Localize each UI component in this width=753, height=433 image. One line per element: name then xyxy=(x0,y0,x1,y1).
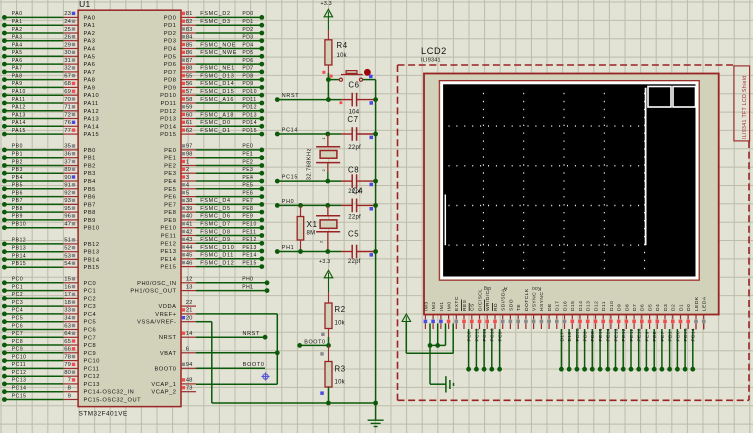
svg-text:PB0: PB0 xyxy=(84,148,96,154)
svg-text:PD7: PD7 xyxy=(164,70,177,76)
svg-text:PE14: PE14 xyxy=(160,257,176,263)
svg-text:PA12: PA12 xyxy=(12,105,26,111)
svg-text:PD13: PD13 xyxy=(160,117,176,123)
svg-text:Koo: Koo xyxy=(532,285,542,291)
svg-text:PB3: PB3 xyxy=(12,167,23,173)
svg-text:PC8: PC8 xyxy=(84,343,97,349)
svg-text:D8: D8 xyxy=(624,304,630,311)
svg-text:PD14: PD14 xyxy=(160,124,176,130)
svg-text:LEDK: LEDK xyxy=(694,296,700,311)
svg-text:PE12: PE12 xyxy=(160,241,176,247)
svg-text:32: 32 xyxy=(64,66,71,72)
svg-text:VREF+: VREF+ xyxy=(155,312,176,318)
svg-text:PD10: PD10 xyxy=(160,93,176,99)
svg-text:72: 72 xyxy=(64,112,71,118)
svg-text:DE: DE xyxy=(547,303,553,311)
svg-text:78: 78 xyxy=(64,354,71,360)
svg-text:PE11: PE11 xyxy=(629,329,635,342)
svg-text:PA12: PA12 xyxy=(84,109,100,115)
svg-text:1: 1 xyxy=(186,159,189,165)
svg-text:24: 24 xyxy=(64,19,71,25)
svg-text:10k: 10k xyxy=(335,379,346,385)
svg-text:FSMC_D11: FSMC_D11 xyxy=(200,253,234,259)
svg-text:PD15: PD15 xyxy=(683,328,689,342)
svg-text:PC0: PC0 xyxy=(12,277,23,283)
svg-text:54: 54 xyxy=(64,261,71,267)
svg-text:PD4: PD4 xyxy=(164,47,177,53)
svg-text:PE2: PE2 xyxy=(164,164,176,170)
svg-text:X1: X1 xyxy=(307,220,318,229)
svg-text:FSMC_D9: FSMC_D9 xyxy=(200,237,230,243)
svg-text:FSMC_D1: FSMC_D1 xyxy=(200,128,230,134)
svg-text:PB15: PB15 xyxy=(84,265,100,271)
svg-text:PA11: PA11 xyxy=(84,101,99,107)
svg-text:+3.3: +3.3 xyxy=(319,259,330,265)
svg-text:FSMC_NOE: FSMC_NOE xyxy=(200,42,236,48)
svg-text:PA15: PA15 xyxy=(84,132,100,138)
svg-text:35: 35 xyxy=(64,144,71,150)
svg-text:PD2: PD2 xyxy=(164,31,177,37)
svg-text:C4: C4 xyxy=(352,187,363,196)
svg-text:D2: D2 xyxy=(671,304,677,311)
svg-text:PB3: PB3 xyxy=(84,171,96,177)
svg-text:PA3: PA3 xyxy=(84,39,96,45)
svg-text:PD9: PD9 xyxy=(164,85,177,91)
svg-text:PB2: PB2 xyxy=(84,164,96,170)
svg-text:96: 96 xyxy=(64,214,71,220)
svg-text:PB14: PB14 xyxy=(12,253,26,259)
svg-text:PD13: PD13 xyxy=(242,112,257,118)
svg-text:PE13: PE13 xyxy=(242,245,256,251)
svg-text:PC14: PC14 xyxy=(12,386,27,392)
svg-text:IM0: IM0 xyxy=(447,301,453,311)
svg-text:70: 70 xyxy=(64,97,71,103)
svg-text:40: 40 xyxy=(186,214,193,220)
svg-text:PC7: PC7 xyxy=(12,331,23,337)
svg-text:77: 77 xyxy=(64,128,71,134)
svg-text:PC13: PC13 xyxy=(84,382,100,388)
svg-text:69: 69 xyxy=(64,89,71,95)
svg-text:FSMC_D3: FSMC_D3 xyxy=(200,19,230,25)
svg-text:R2: R2 xyxy=(335,305,346,314)
svg-text:PE0: PE0 xyxy=(242,144,253,150)
svg-text:D7: D7 xyxy=(632,304,638,311)
svg-text:D10: D10 xyxy=(609,301,615,311)
svg-text:80: 80 xyxy=(64,370,71,376)
svg-text:LEDA: LEDA xyxy=(702,296,708,311)
svg-text:PC6: PC6 xyxy=(12,323,23,329)
svg-text:PC11: PC11 xyxy=(84,366,100,372)
svg-text:PD5: PD5 xyxy=(242,50,253,56)
svg-text:PE3: PE3 xyxy=(242,167,253,173)
svg-text:PE15: PE15 xyxy=(160,265,176,271)
svg-text:IM3: IM3 xyxy=(423,301,429,311)
svg-text:PD1: PD1 xyxy=(668,331,674,342)
svg-text:20: 20 xyxy=(186,316,193,322)
svg-text:PA7: PA7 xyxy=(84,70,96,76)
svg-text:18: 18 xyxy=(64,300,71,306)
svg-text:PB6: PB6 xyxy=(12,190,23,196)
svg-text:57: 57 xyxy=(186,89,193,95)
svg-text:C5: C5 xyxy=(348,230,359,239)
svg-text:6: 6 xyxy=(186,347,190,353)
svg-text:PE14: PE14 xyxy=(606,328,612,341)
svg-text:PD8: PD8 xyxy=(164,78,177,84)
svg-text:4: 4 xyxy=(186,183,190,189)
svg-text:PA8: PA8 xyxy=(12,73,23,79)
svg-text:PB14: PB14 xyxy=(84,258,100,264)
svg-text:98: 98 xyxy=(186,152,193,158)
svg-text:12: 12 xyxy=(186,277,193,283)
svg-text:PC10: PC10 xyxy=(12,354,27,360)
svg-text:NRST: NRST xyxy=(282,93,299,99)
svg-text:FSMC_NWE: FSMC_NWE xyxy=(200,50,237,56)
svg-text:89: 89 xyxy=(64,167,71,173)
svg-text:PB9: PB9 xyxy=(84,218,96,224)
svg-text:PC7: PC7 xyxy=(84,335,97,341)
svg-text:PB7: PB7 xyxy=(84,202,96,208)
svg-text:D14: D14 xyxy=(578,301,584,311)
svg-text:PD8: PD8 xyxy=(242,73,253,79)
svg-text:91: 91 xyxy=(64,183,71,189)
svg-text:FSMC_D5: FSMC_D5 xyxy=(200,206,230,212)
svg-text:62: 62 xyxy=(186,128,193,134)
svg-text:PD14: PD14 xyxy=(691,328,697,342)
svg-text:88: 88 xyxy=(186,66,193,72)
svg-text:PD0: PD0 xyxy=(164,15,177,21)
svg-text:22pf: 22pf xyxy=(348,145,361,151)
svg-text:84: 84 xyxy=(186,35,193,41)
svg-text:VSYNC: VSYNC xyxy=(532,292,538,311)
svg-text:39: 39 xyxy=(186,206,193,212)
svg-text:13: 13 xyxy=(186,284,193,290)
svg-text:ILI9341: ILI9341 xyxy=(421,58,441,64)
svg-text:83: 83 xyxy=(186,27,193,33)
svg-text:WR/D/C: WR/D/C xyxy=(485,290,491,311)
svg-text:PE9: PE9 xyxy=(164,218,176,224)
svg-text:PC15-OSC32_OUT: PC15-OSC32_OUT xyxy=(84,398,142,404)
svg-text:5: 5 xyxy=(186,190,190,196)
svg-text:59: 59 xyxy=(186,105,193,111)
svg-text:22: 22 xyxy=(186,300,193,306)
svg-text:RD: RD xyxy=(493,303,499,311)
svg-text:30: 30 xyxy=(64,50,71,56)
svg-text:PA0: PA0 xyxy=(12,11,23,17)
svg-text:PC12: PC12 xyxy=(12,370,27,376)
svg-text:PC3: PC3 xyxy=(84,304,97,310)
svg-text:PE8: PE8 xyxy=(164,210,176,216)
svg-text:PE1: PE1 xyxy=(164,156,176,162)
svg-text:PB12: PB12 xyxy=(12,238,26,244)
svg-text:PA10: PA10 xyxy=(12,89,26,95)
svg-text:NRST: NRST xyxy=(159,335,177,341)
svg-text:BOOT0: BOOT0 xyxy=(243,362,265,368)
svg-text:46: 46 xyxy=(186,260,193,266)
svg-text:C7: C7 xyxy=(347,115,358,124)
svg-text:dig: dig xyxy=(484,285,491,291)
svg-text:PD0: PD0 xyxy=(675,331,681,342)
svg-text:PE13: PE13 xyxy=(613,328,619,341)
svg-text:17: 17 xyxy=(64,292,71,298)
svg-text:PB5: PB5 xyxy=(84,187,96,193)
svg-text:45: 45 xyxy=(186,253,193,259)
svg-text:DOTCLK: DOTCLK xyxy=(524,288,530,311)
svg-text:48: 48 xyxy=(186,378,193,384)
svg-text:PB8: PB8 xyxy=(12,206,23,212)
svg-text:33: 33 xyxy=(64,308,71,314)
svg-text:PD4: PD4 xyxy=(242,42,253,48)
svg-text:21: 21 xyxy=(186,308,193,314)
svg-text:VBAT: VBAT xyxy=(160,351,177,357)
svg-text:PC15: PC15 xyxy=(282,175,298,181)
svg-text:86: 86 xyxy=(186,50,193,56)
svg-text:NRST: NRST xyxy=(243,331,260,337)
svg-text:PD3: PD3 xyxy=(164,39,177,45)
svg-text:PC1: PC1 xyxy=(12,284,23,290)
svg-text:PC5: PC5 xyxy=(12,316,23,322)
svg-text:FSMC_D10: FSMC_D10 xyxy=(200,245,234,251)
svg-text:BOOT0: BOOT0 xyxy=(154,366,176,372)
svg-text:22pf: 22pf xyxy=(348,259,361,265)
svg-text:PE11: PE11 xyxy=(242,229,256,235)
svg-text:PE4: PE4 xyxy=(242,175,253,181)
svg-text:PE15: PE15 xyxy=(598,328,604,341)
svg-text:PB10: PB10 xyxy=(84,226,100,232)
svg-text:D13: D13 xyxy=(586,301,592,311)
svg-text:PH0: PH0 xyxy=(242,277,253,283)
svg-text:IM2: IM2 xyxy=(431,301,437,311)
svg-text:D15: D15 xyxy=(570,301,576,311)
svg-text:D4: D4 xyxy=(655,304,661,311)
svg-text:PB13: PB13 xyxy=(12,246,26,252)
svg-text:PA14: PA14 xyxy=(84,124,100,130)
svg-text:7: 7 xyxy=(68,378,71,384)
svg-text:PA1: PA1 xyxy=(12,19,23,25)
svg-text:PH0/OSC_IN: PH0/OSC_IN xyxy=(137,281,176,287)
svg-text:51: 51 xyxy=(64,238,71,244)
svg-text:73: 73 xyxy=(186,386,193,392)
svg-text:PA15: PA15 xyxy=(12,128,26,134)
svg-text:PC8: PC8 xyxy=(467,331,473,342)
svg-text:PD1: PD1 xyxy=(242,19,253,25)
svg-text:29: 29 xyxy=(64,42,71,48)
svg-text:PE12: PE12 xyxy=(242,237,256,243)
svg-text:PC2: PC2 xyxy=(12,292,23,298)
svg-text:PH0: PH0 xyxy=(282,199,295,205)
svg-text:R4: R4 xyxy=(337,41,348,50)
svg-text:D17: D17 xyxy=(559,332,565,342)
svg-text:PB5: PB5 xyxy=(12,183,23,189)
svg-text:PC9: PC9 xyxy=(12,347,23,353)
svg-text:PB13: PB13 xyxy=(84,250,100,256)
svg-text:87: 87 xyxy=(186,58,193,64)
svg-text:81: 81 xyxy=(186,11,193,17)
svg-text:PA4: PA4 xyxy=(12,42,23,48)
svg-text:PA2: PA2 xyxy=(84,31,96,37)
svg-text:25: 25 xyxy=(64,27,71,33)
svg-text:PE5: PE5 xyxy=(242,183,253,189)
svg-text:66: 66 xyxy=(64,347,71,353)
svg-text:PE3: PE3 xyxy=(164,171,176,177)
svg-text:PE1: PE1 xyxy=(242,152,253,158)
svg-text:PB7: PB7 xyxy=(12,198,23,204)
svg-text:PH1: PH1 xyxy=(242,284,253,290)
svg-text:D16: D16 xyxy=(562,301,568,311)
svg-text:PB2: PB2 xyxy=(12,159,23,165)
svg-text:56: 56 xyxy=(186,81,193,87)
svg-text:IM1: IM1 xyxy=(439,301,445,311)
svg-text:53: 53 xyxy=(64,253,71,259)
svg-text:PE12: PE12 xyxy=(621,328,627,341)
svg-text:PB15: PB15 xyxy=(12,261,26,267)
svg-text:FSMC_NE1: FSMC_NE1 xyxy=(200,66,235,72)
svg-text:PD11: PD11 xyxy=(242,97,256,103)
svg-text:PA1: PA1 xyxy=(84,23,96,29)
svg-text:PE7: PE7 xyxy=(242,198,253,204)
svg-text:FSMC_D14: FSMC_D14 xyxy=(200,81,234,87)
svg-text:34: 34 xyxy=(64,316,71,322)
svg-text:PC11: PC11 xyxy=(12,362,26,368)
svg-text:PC4: PC4 xyxy=(12,308,23,314)
svg-text:RES: RES xyxy=(462,299,468,311)
svg-text:PE7: PE7 xyxy=(660,331,666,341)
svg-text:D/C/SCL: D/C/SCL xyxy=(477,289,483,311)
svg-text:PC1: PC1 xyxy=(84,289,97,295)
svg-text:PC10: PC10 xyxy=(84,359,100,365)
svg-text:TE: TE xyxy=(516,304,522,311)
svg-text:D11: D11 xyxy=(601,301,607,311)
svg-text:PC4: PC4 xyxy=(84,312,97,318)
svg-text:PA3: PA3 xyxy=(12,35,23,41)
svg-text:PE8: PE8 xyxy=(652,331,658,341)
svg-text:PB8: PB8 xyxy=(84,210,96,216)
svg-text:38: 38 xyxy=(186,198,193,204)
svg-text:10k: 10k xyxy=(335,321,346,327)
svg-text:ILI9341 TFT LCD Shield: ILI9341 TFT LCD Shield xyxy=(742,76,748,139)
svg-text:60: 60 xyxy=(186,112,193,118)
svg-text:42: 42 xyxy=(186,229,193,235)
svg-text:PE10: PE10 xyxy=(242,222,256,228)
svg-text:PC15: PC15 xyxy=(12,393,27,399)
svg-text:PA13: PA13 xyxy=(84,117,100,123)
svg-text:+3.3: +3.3 xyxy=(321,1,332,7)
svg-text:PD14: PD14 xyxy=(242,120,257,126)
svg-text:44: 44 xyxy=(186,245,193,251)
svg-text:26: 26 xyxy=(64,35,71,41)
svg-text:PD15: PD15 xyxy=(242,128,257,134)
svg-text:PE9: PE9 xyxy=(644,331,650,341)
svg-text:PE13: PE13 xyxy=(160,249,176,255)
svg-text:PD12: PD12 xyxy=(160,109,176,115)
svg-text:PC14: PC14 xyxy=(282,128,298,134)
svg-text:PB10: PB10 xyxy=(12,222,26,228)
svg-text:VSSA/VREF-: VSSA/VREF- xyxy=(137,320,176,326)
svg-text:PC5: PC5 xyxy=(84,320,97,326)
svg-text:PA5: PA5 xyxy=(12,50,23,56)
svg-text:31: 31 xyxy=(64,58,71,64)
svg-text:PD6: PD6 xyxy=(164,62,177,68)
svg-text:SDI/SDA: SDI/SDA xyxy=(501,288,507,311)
svg-text:37: 37 xyxy=(64,159,71,165)
svg-text:PB4: PB4 xyxy=(12,175,23,181)
svg-text:22pf: 22pf xyxy=(348,215,361,221)
svg-text:PC8: PC8 xyxy=(12,339,23,345)
svg-text:15: 15 xyxy=(64,277,71,283)
svg-text:PD0: PD0 xyxy=(242,11,253,17)
svg-text:C6: C6 xyxy=(348,81,359,90)
svg-text:3: 3 xyxy=(186,175,190,181)
svg-text:58: 58 xyxy=(186,97,193,103)
svg-text:FSMC_D15: FSMC_D15 xyxy=(200,89,234,95)
svg-text:VDDA: VDDA xyxy=(158,304,176,310)
svg-text:PD9: PD9 xyxy=(242,81,253,87)
svg-text:47: 47 xyxy=(64,222,71,228)
svg-text:D17: D17 xyxy=(555,301,561,311)
svg-text:PE15: PE15 xyxy=(242,260,256,266)
svg-text:PD1: PD1 xyxy=(164,23,177,29)
svg-text:PC11: PC11 xyxy=(482,328,488,341)
svg-text:PH1: PH1 xyxy=(282,245,295,251)
svg-text:PE8: PE8 xyxy=(242,206,253,212)
svg-text:PD2: PD2 xyxy=(242,27,253,33)
svg-text:PA9: PA9 xyxy=(12,81,23,87)
svg-text:61: 61 xyxy=(186,120,193,126)
svg-text:PC13: PC13 xyxy=(12,378,27,384)
svg-text:92: 92 xyxy=(64,190,71,196)
svg-text:PD10: PD10 xyxy=(242,89,257,95)
svg-text:36: 36 xyxy=(64,152,71,158)
svg-text:32.768KHz: 32.768KHz xyxy=(307,148,313,180)
svg-text:D3: D3 xyxy=(663,304,669,311)
svg-text:PE2: PE2 xyxy=(242,159,253,165)
svg-text:76: 76 xyxy=(64,120,71,126)
svg-text:85: 85 xyxy=(186,42,193,48)
svg-text:PE7: PE7 xyxy=(164,202,176,208)
svg-text:79: 79 xyxy=(64,362,71,368)
svg-text:10k: 10k xyxy=(337,53,348,59)
svg-text:PE5: PE5 xyxy=(164,187,176,193)
svg-text:FSMC_D7: FSMC_D7 xyxy=(200,222,230,228)
svg-text:PB9: PB9 xyxy=(12,214,23,220)
svg-text:STM32F401VE: STM32F401VE xyxy=(79,411,128,418)
svg-text:PE9: PE9 xyxy=(242,214,253,220)
svg-text:PB6: PB6 xyxy=(84,195,96,201)
svg-text:FSMC_D12: FSMC_D12 xyxy=(200,260,234,266)
svg-text:EXTC: EXTC xyxy=(454,296,460,311)
svg-text:FSMC_A16: FSMC_A16 xyxy=(200,97,234,103)
svg-text:R3: R3 xyxy=(335,364,346,373)
svg-text:8M: 8M xyxy=(307,231,316,237)
svg-text:PB1: PB1 xyxy=(84,156,96,162)
svg-text:PE11: PE11 xyxy=(161,234,177,240)
svg-text:PA14: PA14 xyxy=(12,120,26,126)
svg-text:PB1: PB1 xyxy=(12,152,23,158)
svg-text:68: 68 xyxy=(64,81,71,87)
svg-text:PD9: PD9 xyxy=(583,331,589,342)
svg-text:C8: C8 xyxy=(348,166,359,175)
svg-text:PC9: PC9 xyxy=(84,351,97,357)
svg-text:PE10: PE10 xyxy=(637,328,643,341)
svg-text:PC3: PC3 xyxy=(12,300,23,306)
svg-text:D0: D0 xyxy=(686,304,692,311)
svg-text:95: 95 xyxy=(64,206,71,212)
svg-text:PA2: PA2 xyxy=(12,27,23,33)
svg-text:FSMC_A18: FSMC_A18 xyxy=(200,112,234,118)
svg-text:PE10: PE10 xyxy=(160,226,176,232)
svg-text:43: 43 xyxy=(186,237,193,243)
svg-text:HSYNC: HSYNC xyxy=(539,292,545,311)
svg-text:D16: D16 xyxy=(567,332,573,342)
